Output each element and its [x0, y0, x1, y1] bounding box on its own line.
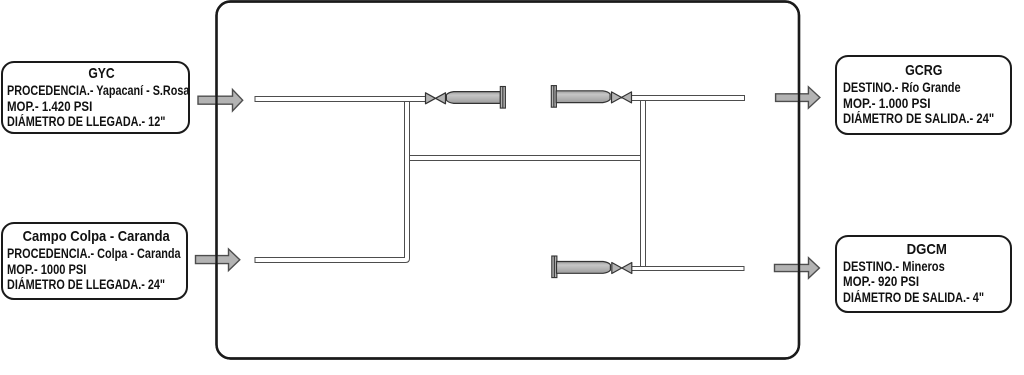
flange F3 (bottom-right closure)	[552, 256, 557, 278]
wire: GYC inlet pipe (top-left header)	[255, 97, 426, 102]
flange F2 (top-right closure)	[551, 86, 556, 108]
valve V2 (top-right block valve)	[612, 92, 632, 103]
station boundary box	[217, 2, 800, 359]
arrow: Colpa inlet flow	[196, 249, 240, 271]
wire: DGCM outlet pipe (bottom-right)	[631, 267, 744, 271]
valve V1 (top-left block valve)	[426, 93, 446, 104]
label box: Campo Colpa - Caranda source	[1, 222, 188, 300]
label box: DGCM destination	[835, 235, 1012, 313]
pig trap barrel (top-right receiver)	[556, 91, 610, 103]
pig trap barrel (top-left launcher)	[446, 92, 500, 104]
station boundary box border (over arrows)	[217, 2, 800, 359]
wire: GCRG outlet pipe (top-right)	[631, 96, 745, 101]
arrow: DGCM outlet flow	[775, 258, 820, 278]
valve V3 (bottom-right block valve)	[612, 263, 632, 274]
wire: left riser + Colpa inlet pipe (L-shape with elbow)	[255, 102, 410, 263]
arrow: GCRG outlet flow	[776, 87, 820, 108]
label box: GYC source	[1, 61, 190, 134]
wire: right riser (vertical pipe)	[641, 101, 646, 267]
arrow: GYC inlet flow	[198, 90, 243, 112]
wire: crossover header (middle horizontal pipe)	[405, 156, 644, 161]
flange F1 (top-left closure)	[500, 87, 505, 109]
pig trap barrel (bottom-right receiver)	[557, 262, 611, 274]
label box: GCRG destination	[835, 55, 1012, 135]
